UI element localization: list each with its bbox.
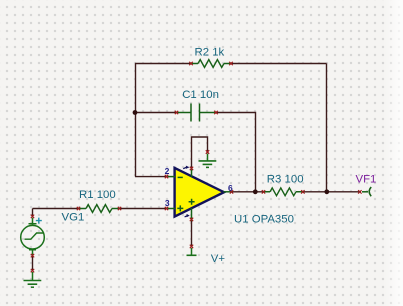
- pin x-mark: [190, 218, 193, 222]
- pin x-mark: [118, 207, 121, 210]
- voltage source VG1: [21, 218, 45, 255]
- wire: [32, 255, 34, 272]
- svg-text:VF1: VF1: [356, 174, 377, 186]
- op-amp U1: [175, 168, 224, 217]
- op-amp top supply lead: [191, 170, 193, 177]
- pin x-mark: [31, 269, 34, 273]
- svg-text:3: 3: [165, 198, 170, 208]
- pin x-mark: [262, 190, 265, 194]
- plus mark pin3: [177, 205, 183, 211]
- op-amp bottom supply lead: [191, 208, 193, 221]
- pin x-mark: [301, 190, 305, 194]
- pin x-mark: [358, 190, 362, 194]
- plus polarity mark: [36, 218, 42, 224]
- wire: [326, 64, 328, 192]
- pin x-mark: [77, 207, 80, 210]
- junction node A: [133, 110, 138, 115]
- wire: [216, 113, 256, 192]
- wire: [135, 112, 177, 114]
- svg-text:C1 10n: C1 10n: [182, 89, 219, 101]
- pin x-mark: [175, 111, 178, 114]
- svg-text:R3 100: R3 100: [267, 173, 304, 185]
- top pin arrow: [183, 167, 186, 168]
- resistor R1: [79, 205, 120, 213]
- pin x-mark: [230, 190, 233, 194]
- pin x-mark: [189, 62, 193, 65]
- svg-text:R1 100: R1 100: [79, 189, 116, 201]
- minus mark pin2: [178, 176, 183, 178]
- svg-text:R2 1k: R2 1k: [195, 46, 225, 58]
- wire: [32, 209, 34, 218]
- op-amp input lead pin2: [168, 176, 176, 178]
- wire: [192, 137, 208, 168]
- pin x-mark: [31, 215, 34, 219]
- bottom pin arrow: [185, 216, 188, 217]
- svg-text:V+: V+: [211, 253, 226, 265]
- wire: [233, 191, 264, 193]
- wire: [135, 64, 137, 177]
- resistor R2: [191, 60, 231, 68]
- svg-text:2: 2: [165, 166, 170, 176]
- pin x-mark: [229, 62, 233, 65]
- V+ supply jack: [187, 248, 197, 255]
- pin x-mark: [214, 111, 218, 114]
- op-amp output lead pin6: [224, 191, 233, 193]
- op-amp input lead pin3: [168, 208, 176, 210]
- pin x-mark: [165, 207, 168, 210]
- plus mark supply: [189, 199, 195, 205]
- svg-text:VG1: VG1: [62, 212, 85, 224]
- resistor R3: [264, 188, 304, 196]
- pin x-mark: [190, 245, 193, 249]
- ground (op-amp V-): [199, 154, 217, 168]
- junction node VF: [324, 189, 329, 194]
- svg-text:6: 6: [228, 183, 233, 193]
- wire: [191, 220, 193, 246]
- capacitor C1: [177, 104, 216, 122]
- wire: [33, 208, 167, 210]
- ground (VG1): [24, 272, 42, 287]
- junction node OUT: [253, 189, 258, 194]
- pin x-mark: [31, 254, 34, 258]
- output pin VF1: [362, 187, 371, 196]
- wire: [135, 176, 166, 178]
- pin x-mark: [165, 175, 168, 179]
- wire: [135, 63, 327, 65]
- svg-text:U1 OPA350: U1 OPA350: [234, 214, 294, 226]
- wire: [303, 191, 361, 193]
- pin x-mark: [206, 150, 209, 154]
- pin x-mark: [190, 167, 193, 171]
